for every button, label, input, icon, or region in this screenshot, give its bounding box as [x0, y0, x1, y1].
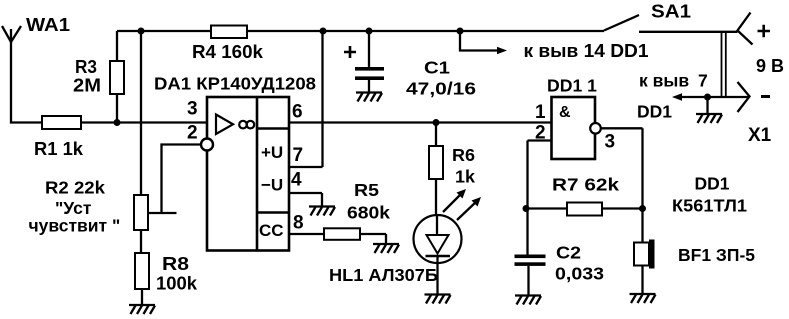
wire antenna to R1	[11, 42, 42, 123]
svg-text:R4 160k: R4 160k	[192, 42, 264, 62]
gate DD1.1	[547, 76, 597, 160]
svg-text:WA1: WA1	[26, 15, 70, 35]
resistor R2 potentiometer	[29, 178, 149, 236]
svg-text:BF1 ЗП-5: BF1 ЗП-5	[678, 245, 755, 265]
node R3 bottom junction	[114, 119, 121, 126]
node R6 junction	[433, 119, 440, 126]
connector X1 body	[722, 32, 726, 97]
connector X1 minus contact	[738, 82, 771, 112]
ground C1	[356, 93, 382, 102]
svg-text:К561ТЛ1: К561ТЛ1	[672, 196, 747, 216]
ground R5	[373, 244, 399, 253]
wire gate pin 2	[528, 141, 552, 255]
wire pin 7 to +9V rail	[289, 31, 323, 167]
wire R2 wiper to pin 2	[148, 145, 201, 214]
ground R8	[129, 305, 155, 314]
svg-text:1k: 1k	[455, 167, 475, 187]
svg-text:2: 2	[187, 123, 198, 144]
gate output bubble	[590, 123, 601, 134]
wire R8 to ground	[141, 289, 143, 305]
wire gate output	[601, 128, 643, 241]
wire minus ground stem	[706, 97, 708, 114]
svg-text:6: 6	[292, 102, 303, 123]
svg-text:к выв: к выв	[639, 71, 689, 91]
ground pin 4	[309, 207, 335, 216]
op-amp U1 DA1 box	[154, 74, 316, 251]
resistor R3	[73, 31, 124, 123]
node supply arrow junction	[457, 28, 464, 35]
ground C2	[515, 296, 541, 305]
svg-text:CC: CC	[259, 221, 284, 240]
buzzer BF1	[634, 240, 755, 294]
svg-text:C1: C1	[424, 58, 450, 78]
svg-text:R1 1k: R1 1k	[34, 139, 84, 159]
svg-text:к выв 14 DD1: к выв 14 DD1	[524, 41, 649, 61]
wire top rail +9V	[247, 30, 604, 32]
resistor R5	[324, 180, 390, 240]
svg-text:C2: C2	[556, 243, 581, 263]
text DD1 type	[672, 174, 747, 216]
wire R1 to DA1 pin 3	[81, 121, 207, 123]
svg-text:SA1: SA1	[651, 2, 691, 22]
ground HL1	[425, 295, 451, 304]
wire pin 6 output rail	[289, 121, 552, 123]
svg-text:R5: R5	[354, 180, 379, 200]
resistor R1	[34, 116, 84, 159]
svg-text:R8: R8	[162, 254, 189, 274]
node R7 right junction	[639, 205, 646, 212]
svg-text:R6: R6	[452, 145, 475, 165]
resistor R8	[135, 253, 198, 294]
op-amp infinity symbol	[239, 121, 254, 129]
svg-text:2M: 2M	[73, 76, 101, 96]
wire HL1 to ground	[436, 256, 438, 294]
svg-text:HL1 АЛ307Б: HL1 АЛ307Б	[329, 265, 438, 285]
svg-text:DD1: DD1	[637, 102, 672, 122]
svg-text:100k: 100k	[156, 274, 198, 294]
svg-text:9 В: 9 В	[756, 56, 784, 76]
node R7 left junction	[523, 205, 530, 212]
svg-text:3: 3	[605, 132, 616, 153]
svg-text:3: 3	[187, 99, 198, 120]
ground BF1	[630, 294, 656, 303]
svg-text:0,033: 0,033	[555, 264, 604, 284]
wire to pin 14 DD1 arrow	[460, 31, 649, 61]
svg-text:DD1 1: DD1 1	[547, 76, 597, 96]
svg-text:R2 22k: R2 22k	[45, 178, 105, 198]
wire to pin 7 DD1 arrow	[637, 71, 708, 122]
svg-text:X1: X1	[748, 125, 772, 146]
svg-text:&: &	[559, 104, 571, 121]
wire R6 to HL1	[435, 179, 437, 215]
wire top rail left	[117, 30, 211, 32]
node C1 junction	[366, 28, 373, 35]
node pin7 rail junction	[320, 28, 327, 35]
svg-text:DA1 КР140УД1208: DA1 КР140УД1208	[154, 74, 316, 94]
svg-text:47,0/16: 47,0/16	[406, 79, 476, 99]
resistor R4	[192, 26, 264, 63]
node minus junction	[704, 94, 711, 101]
svg-text:680k: 680k	[347, 203, 390, 223]
wire minus to ground	[708, 96, 750, 98]
svg-text:DD1: DD1	[695, 174, 730, 194]
svg-text:8: 8	[293, 213, 304, 234]
pin 2 inverting bubble	[201, 139, 213, 151]
svg-text:−U: −U	[261, 176, 283, 195]
svg-text:+U: +U	[261, 143, 283, 162]
node R2 top junction	[138, 28, 145, 35]
wire pin 8 to R5	[289, 233, 324, 235]
svg-text:чувствит ": чувствит "	[29, 216, 121, 236]
capacitor C1	[344, 31, 476, 99]
resistor R6	[429, 123, 475, 187]
ground X1 minus	[696, 114, 722, 123]
svg-text:7: 7	[293, 145, 304, 166]
antenna WA1	[2, 15, 70, 42]
svg-text:R7 62k: R7 62k	[552, 175, 619, 195]
wire R5 to ground	[360, 234, 386, 244]
wire R2 branch	[140, 31, 142, 195]
switch SA1	[604, 2, 691, 31]
svg-text:R3: R3	[75, 57, 97, 77]
wire SA1 to battery	[639, 31, 738, 33]
svg-text:4: 4	[291, 170, 302, 191]
wire R2 to R8	[140, 230, 142, 253]
resistor R7	[526, 175, 643, 216]
LED HL1	[329, 215, 462, 285]
capacitor C2	[515, 243, 605, 296]
op-amp triangle symbol	[216, 115, 233, 135]
svg-text:1: 1	[535, 102, 546, 123]
wire pin 4 to ground	[289, 193, 322, 206]
connector X1 plus contact	[738, 13, 771, 45]
svg-text:7: 7	[698, 71, 708, 91]
LED arrows	[443, 189, 481, 220]
